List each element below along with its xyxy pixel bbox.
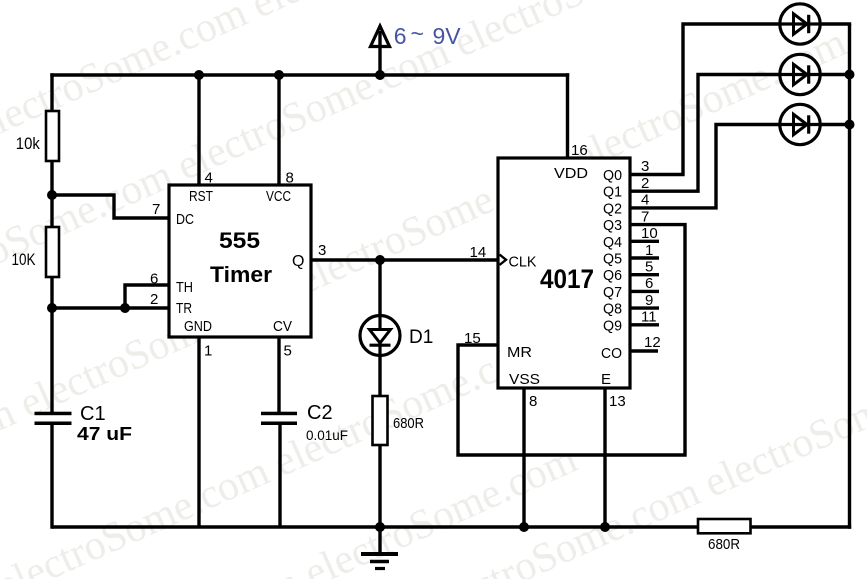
- svg-text:Q2: Q2: [603, 200, 622, 217]
- node left rail junction B: [47, 303, 57, 313]
- svg-text:12: 12: [644, 334, 661, 351]
- svg-text:4017: 4017: [540, 264, 594, 294]
- node bottom rail D1: [375, 522, 385, 532]
- wire Q to CLK: [311, 258, 497, 261]
- svg-text:Q3: Q3: [603, 217, 622, 234]
- wire bottom rail left: [52, 525, 701, 528]
- wire left rail R2-C1: [50, 276, 53, 413]
- svg-text:47 uF: 47 uF: [77, 424, 132, 444]
- svg-text:2: 2: [150, 291, 158, 308]
- svg-text:5: 5: [645, 259, 653, 276]
- ground: [361, 527, 398, 569]
- svg-text:4: 4: [205, 170, 213, 187]
- node top rail RST: [194, 70, 204, 80]
- resistor R2 10K: [12, 227, 60, 277]
- wire left rail upper: [50, 73, 53, 112]
- svg-text:TH: TH: [176, 279, 193, 296]
- svg-text:8: 8: [529, 393, 537, 410]
- wire Q4 stub: [630, 240, 659, 243]
- svg-text:11: 11: [641, 309, 657, 326]
- svg-text:C2: C2: [307, 402, 333, 424]
- node TH-TR junction: [120, 303, 130, 313]
- IC U2 4017 counter: [498, 158, 630, 388]
- svg-text:Q0: Q0: [603, 167, 622, 184]
- svg-text:~: ~: [411, 21, 424, 47]
- node left rail junction A: [47, 190, 57, 200]
- svg-text:16: 16: [571, 142, 588, 159]
- wire right rail: [848, 24, 851, 529]
- wire left rail C1-bottom: [50, 423, 53, 529]
- svg-text:13: 13: [609, 393, 626, 410]
- svg-text:Q: Q: [292, 253, 304, 270]
- node Q-D1 junction: [375, 255, 385, 265]
- wire bottom rail right: [749, 525, 851, 528]
- svg-text:10: 10: [641, 225, 658, 242]
- wire LED1 to right rail: [819, 22, 851, 25]
- wire Q2 to LED3: [630, 125, 781, 208]
- svg-text:10K: 10K: [12, 250, 37, 269]
- resistor R4 680R bottom: [698, 519, 751, 553]
- svg-text:9V: 9V: [433, 23, 462, 49]
- svg-text:DC: DC: [176, 211, 194, 228]
- svg-text:D1: D1: [409, 327, 433, 348]
- wire LED3 to right rail: [819, 123, 850, 126]
- wire GND pin1: [197, 337, 200, 527]
- resistor R3 680R: [373, 396, 425, 445]
- wire Q3 to MR loop: [458, 225, 685, 455]
- capacitor C1 47uF: [35, 403, 133, 444]
- wire Q9 stub: [630, 323, 659, 326]
- wire CV pin5: [277, 337, 280, 413]
- wire top rail: [50, 73, 569, 76]
- svg-text:3: 3: [641, 158, 649, 175]
- LED LED3: [780, 104, 820, 144]
- svg-text:1: 1: [645, 242, 653, 259]
- svg-text:Q5: Q5: [603, 251, 622, 268]
- svg-text:CLK: CLK: [509, 254, 537, 271]
- svg-text:555: 555: [219, 228, 260, 253]
- svg-text:680R: 680R: [708, 536, 740, 553]
- svg-text:Q8: Q8: [603, 301, 622, 318]
- svg-text:6: 6: [394, 23, 407, 49]
- resistor R1 10k: [16, 111, 59, 161]
- LED LED2: [780, 54, 820, 94]
- wire Q7 stub: [630, 290, 659, 293]
- svg-text:680R: 680R: [393, 415, 424, 432]
- wire Q6 stub: [630, 273, 659, 276]
- wire C2 lower: [278, 423, 281, 527]
- svg-text:E: E: [601, 371, 611, 388]
- svg-text:VSS: VSS: [509, 371, 540, 388]
- svg-text:10k: 10k: [16, 134, 40, 153]
- wire LED2 to right rail: [819, 73, 850, 76]
- wire D1 branch upper: [378, 260, 381, 396]
- LED LED1: [780, 4, 820, 44]
- capacitor C2 0.01uF: [261, 402, 348, 443]
- wire E pin13: [603, 388, 606, 527]
- wire TH pin6: [125, 285, 169, 308]
- svg-text:0.01uF: 0.01uF: [306, 427, 348, 443]
- svg-text:Q9: Q9: [603, 317, 622, 334]
- wire Q8 stub: [630, 306, 659, 309]
- svg-text:7: 7: [152, 201, 160, 218]
- svg-text:Q7: Q7: [603, 284, 622, 301]
- wire Q1 to LED2: [630, 75, 781, 192]
- wire CO stub: [630, 349, 658, 352]
- svg-text:6: 6: [645, 275, 653, 292]
- node right rail LED2: [845, 70, 855, 80]
- node bottom rail VSS: [519, 522, 529, 532]
- wire RST pin4: [197, 75, 200, 185]
- node top rail supply: [375, 70, 385, 80]
- svg-text:MR: MR: [507, 344, 532, 361]
- svg-text:8: 8: [286, 170, 294, 187]
- svg-text:7: 7: [641, 208, 649, 225]
- svg-text:RST: RST: [189, 188, 213, 205]
- svg-text:VCC: VCC: [266, 188, 291, 205]
- wire Q0 to LED1: [630, 24, 781, 175]
- wire DC pin7: [52, 195, 169, 218]
- svg-text:CO: CO: [601, 345, 622, 362]
- svg-text:VDD: VDD: [554, 165, 588, 182]
- svg-text:TR: TR: [176, 300, 192, 317]
- wire VCC pin8: [277, 75, 280, 185]
- wire Q5 stub: [630, 256, 659, 259]
- LED D1: [360, 316, 433, 357]
- svg-text:14: 14: [470, 244, 487, 261]
- wire D1 branch lower: [378, 445, 381, 527]
- svg-text:CV: CV: [273, 318, 292, 335]
- svg-text:4: 4: [641, 192, 649, 209]
- svg-text:2: 2: [641, 175, 649, 192]
- node bottom rail E: [600, 522, 610, 532]
- svg-text:6: 6: [150, 271, 158, 288]
- svg-text:15: 15: [464, 330, 481, 347]
- node top rail VCC: [274, 70, 284, 80]
- svg-text:9: 9: [645, 292, 653, 309]
- svg-text:3: 3: [318, 242, 326, 259]
- svg-text:1: 1: [204, 343, 212, 360]
- node right rail LED3: [845, 120, 855, 130]
- svg-text:Timer: Timer: [210, 262, 272, 287]
- wire left rail R1-R2: [50, 160, 53, 228]
- wire VDD pin16: [566, 73, 569, 158]
- svg-text:Q4: Q4: [603, 234, 622, 251]
- svg-text:Q6: Q6: [603, 267, 622, 284]
- svg-text:GND: GND: [184, 318, 212, 335]
- wire TR pin2: [52, 306, 169, 309]
- IC U1 555 timer: [169, 185, 311, 337]
- power supply 6~9V: [371, 21, 462, 76]
- svg-text:Q1: Q1: [603, 184, 622, 201]
- svg-text:5: 5: [284, 343, 292, 360]
- svg-text:C1: C1: [80, 403, 106, 425]
- wire VSS pin8: [522, 388, 525, 527]
